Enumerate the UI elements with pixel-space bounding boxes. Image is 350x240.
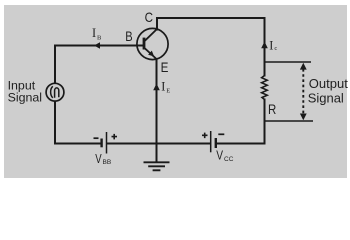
svg-text:CC: CC bbox=[224, 156, 234, 163]
ground symbol bbox=[144, 162, 170, 170]
svg-text:R: R bbox=[268, 101, 276, 117]
output arrow down bbox=[300, 114, 307, 121]
arrow IE on emitter wire bbox=[153, 84, 160, 91]
arrow IB on base wire bbox=[94, 42, 100, 49]
svg-text:Signal: Signal bbox=[308, 91, 344, 106]
output bottom stub bbox=[265, 120, 314, 122]
svg-text:I: I bbox=[269, 38, 273, 52]
wire bottom left segment bbox=[55, 143, 101, 145]
wire ground stem bbox=[156, 144, 158, 162]
wire base horizontal bbox=[55, 45, 143, 47]
transistor Q1 emitter line bbox=[145, 48, 157, 59]
battery VCC short plate bbox=[215, 138, 217, 148]
battery VCC minus sign bbox=[218, 133, 224, 135]
svg-text:B: B bbox=[125, 28, 132, 44]
wire top horizontal bbox=[157, 17, 265, 19]
svg-text:E: E bbox=[166, 88, 170, 95]
output dotted measure line bbox=[302, 69, 304, 114]
wire bottom right segment bbox=[217, 143, 265, 145]
battery VBB short plate bbox=[100, 139, 102, 148]
battery VCC plus sign bbox=[202, 133, 208, 139]
svg-text:V: V bbox=[95, 151, 102, 166]
wire collector lead bbox=[156, 18, 158, 30]
svg-text:Output: Output bbox=[309, 76, 348, 91]
AC source sine squiggle bbox=[51, 86, 53, 98]
transistor Q1 circle bbox=[137, 28, 168, 59]
arrow IC on right wire bbox=[261, 42, 268, 49]
svg-text:V: V bbox=[216, 148, 223, 163]
svg-text:Signal: Signal bbox=[8, 91, 42, 105]
battery VCC long plate bbox=[210, 131, 212, 152]
battery VBB long plate bbox=[106, 132, 108, 154]
panel background bbox=[4, 5, 347, 178]
resistor R zigzag bbox=[262, 76, 268, 100]
transistor Q1 base bar bbox=[143, 38, 146, 50]
transistor Q1 emitter arrow bbox=[148, 51, 154, 57]
svg-text:BB: BB bbox=[103, 159, 112, 166]
svg-text:I: I bbox=[161, 79, 165, 93]
svg-text:E: E bbox=[161, 59, 169, 75]
svg-text:C: C bbox=[145, 9, 153, 25]
wire right vertical lower bbox=[264, 100, 266, 144]
transistor Q1 collector line bbox=[145, 29, 157, 41]
output arrow up bbox=[300, 63, 307, 70]
output top stub bbox=[265, 61, 312, 63]
battery VBB plus sign bbox=[112, 134, 118, 140]
wire bottom middle segment bbox=[107, 143, 210, 145]
svg-text:B: B bbox=[97, 35, 102, 42]
svg-text:c: c bbox=[274, 45, 277, 52]
wire right vertical upper bbox=[264, 18, 266, 76]
wire emitter vertical bbox=[156, 59, 158, 144]
AC source circle bbox=[46, 83, 64, 101]
battery VBB minus sign bbox=[94, 137, 99, 139]
wire left vertical bbox=[54, 46, 56, 144]
svg-text:I: I bbox=[92, 26, 96, 40]
